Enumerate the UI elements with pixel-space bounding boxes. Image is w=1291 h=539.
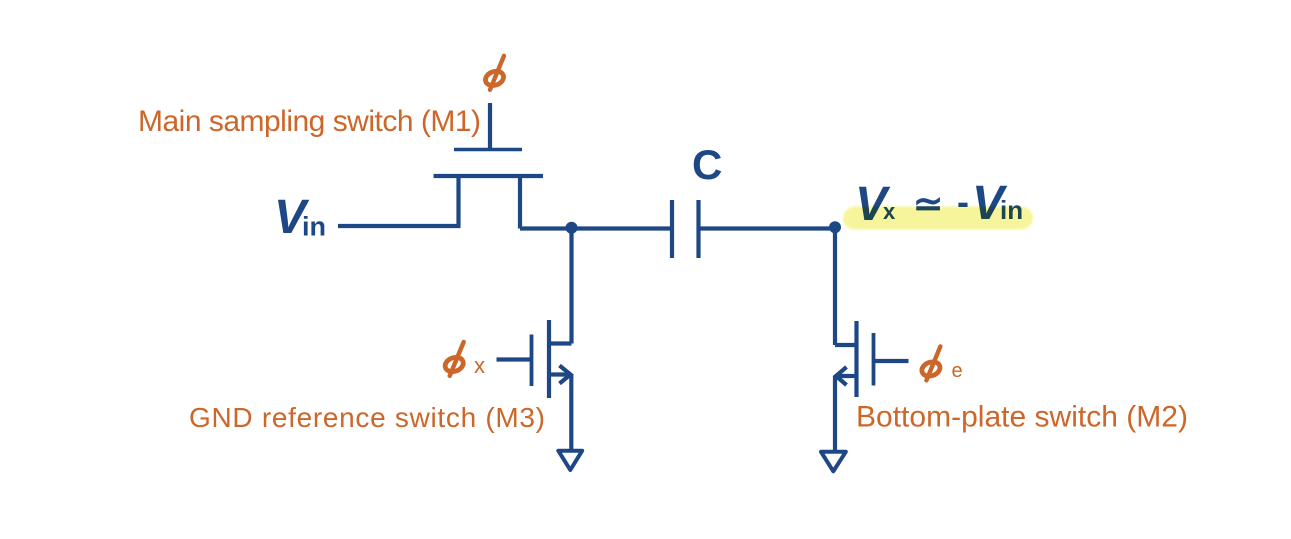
transistor M1 drain leg [518, 176, 522, 229]
wire M2 source down to ground [833, 376, 837, 451]
transistor M2 channel bar [854, 321, 858, 397]
node Vx junction dot [829, 221, 841, 233]
phi label of M1 [483, 56, 505, 90]
transistor M1 channel bar [434, 174, 544, 178]
wire M1 to capacitor [520, 226, 672, 230]
node X junction dot [566, 222, 578, 234]
svg-text:Main sampling switch (M1): Main sampling switch (M1) [138, 105, 481, 138]
svg-text:C: C [692, 141, 722, 188]
svg-text:Bottom-plate switch (M2): Bottom-plate switch (M2) [856, 401, 1188, 434]
wire node Vx vertical down to M2 [833, 228, 837, 345]
ground symbol M2 [821, 452, 846, 472]
capacitor C right plate [696, 200, 700, 258]
transistor M1 source leg [456, 176, 460, 226]
transistor M2 drain lead [835, 343, 857, 347]
transistor M2 source arrow [836, 367, 847, 385]
transistor M3 source lead [549, 372, 571, 376]
wire node X vertical down to M3 [569, 228, 573, 344]
label Vin [274, 191, 326, 244]
transistor M3 drain lead [549, 341, 572, 345]
label Vx = -Vin [855, 177, 1023, 231]
transistor M3 channel bar [547, 320, 551, 398]
ground symbol M3 [558, 451, 582, 470]
transistor M1 gate stub [488, 103, 492, 150]
svg-text:in: in [302, 212, 326, 242]
capacitor C left plate [670, 200, 674, 258]
wire M3 source down to ground [569, 375, 573, 451]
svg-text:e: e [952, 360, 963, 382]
transistor M2 gate bar [872, 333, 876, 386]
transistor M1 gate bar [454, 148, 522, 152]
phi-e label of M2 [920, 346, 942, 380]
transistor M2 source lead [835, 374, 856, 378]
transistor M2 gate lead [874, 359, 909, 363]
phi-x label of M3 [443, 342, 465, 376]
highlight pill over Vx label [843, 207, 1033, 230]
transistor M3 gate lead [497, 357, 532, 361]
svg-text:GND reference switch (M3): GND reference switch (M3) [189, 402, 545, 433]
wire capacitor to node Vx [699, 226, 836, 230]
transistor M3 gate bar [530, 335, 534, 387]
svg-text:x: x [474, 353, 485, 378]
transistor M3 source arrow [560, 366, 571, 384]
wire Vin to M1 [338, 224, 461, 228]
